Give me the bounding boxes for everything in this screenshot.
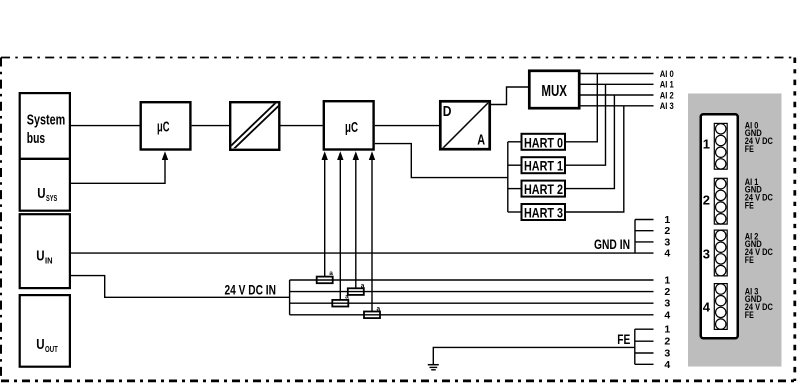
svg-text:a: a (377, 305, 381, 312)
svg-text:GND IN: GND IN (594, 237, 630, 252)
svg-text:a: a (329, 270, 333, 277)
svg-text:3: 3 (703, 246, 710, 261)
svg-text:U: U (37, 185, 45, 202)
svg-text:4: 4 (664, 359, 670, 371)
svg-text:AI 1: AI 1 (660, 80, 674, 90)
svg-text:4: 4 (703, 300, 711, 315)
svg-text:1: 1 (703, 137, 710, 152)
svg-text:3: 3 (664, 298, 670, 310)
svg-text:a: a (345, 294, 349, 301)
svg-text:2: 2 (703, 193, 710, 208)
svg-text:IN: IN (45, 256, 53, 266)
svg-text:bus: bus (27, 130, 45, 147)
svg-text:3: 3 (664, 236, 670, 248)
svg-text:AI 3: AI 3 (660, 101, 674, 111)
svg-text:a: a (361, 283, 365, 290)
svg-text:2: 2 (664, 286, 670, 298)
svg-text:AI 2: AI 2 (660, 90, 674, 100)
svg-text:System: System (27, 111, 65, 128)
svg-text:2: 2 (664, 225, 670, 237)
svg-text:MUX: MUX (541, 83, 567, 100)
svg-text:4: 4 (664, 309, 670, 321)
svg-text:A: A (477, 132, 485, 149)
svg-text:FE: FE (745, 310, 754, 321)
svg-text:FE: FE (617, 332, 630, 347)
svg-text:1: 1 (664, 275, 670, 287)
svg-text:D: D (443, 103, 452, 120)
svg-text:U: U (36, 248, 44, 265)
svg-text:HART 3: HART 3 (524, 205, 563, 221)
svg-text:AI 0: AI 0 (660, 69, 674, 79)
svg-text:FE: FE (745, 200, 754, 211)
svg-text:HART 2: HART 2 (524, 181, 563, 197)
svg-text:HART 0: HART 0 (524, 134, 563, 150)
svg-text:μC: μC (345, 120, 358, 136)
svg-text:3: 3 (664, 348, 670, 360)
svg-text:1: 1 (664, 324, 670, 336)
svg-text:HART 1: HART 1 (524, 158, 563, 174)
svg-text:OUT: OUT (45, 344, 58, 354)
svg-text:U: U (36, 336, 44, 353)
svg-text:4: 4 (664, 248, 670, 260)
svg-text:FE: FE (745, 144, 754, 155)
svg-text:2: 2 (664, 336, 670, 348)
svg-text:μC: μC (157, 120, 170, 136)
svg-text:24 V DC IN: 24 V DC IN (225, 283, 277, 298)
svg-text:FE: FE (745, 255, 754, 266)
svg-text:1: 1 (664, 214, 670, 226)
svg-text:SYS: SYS (46, 193, 58, 203)
